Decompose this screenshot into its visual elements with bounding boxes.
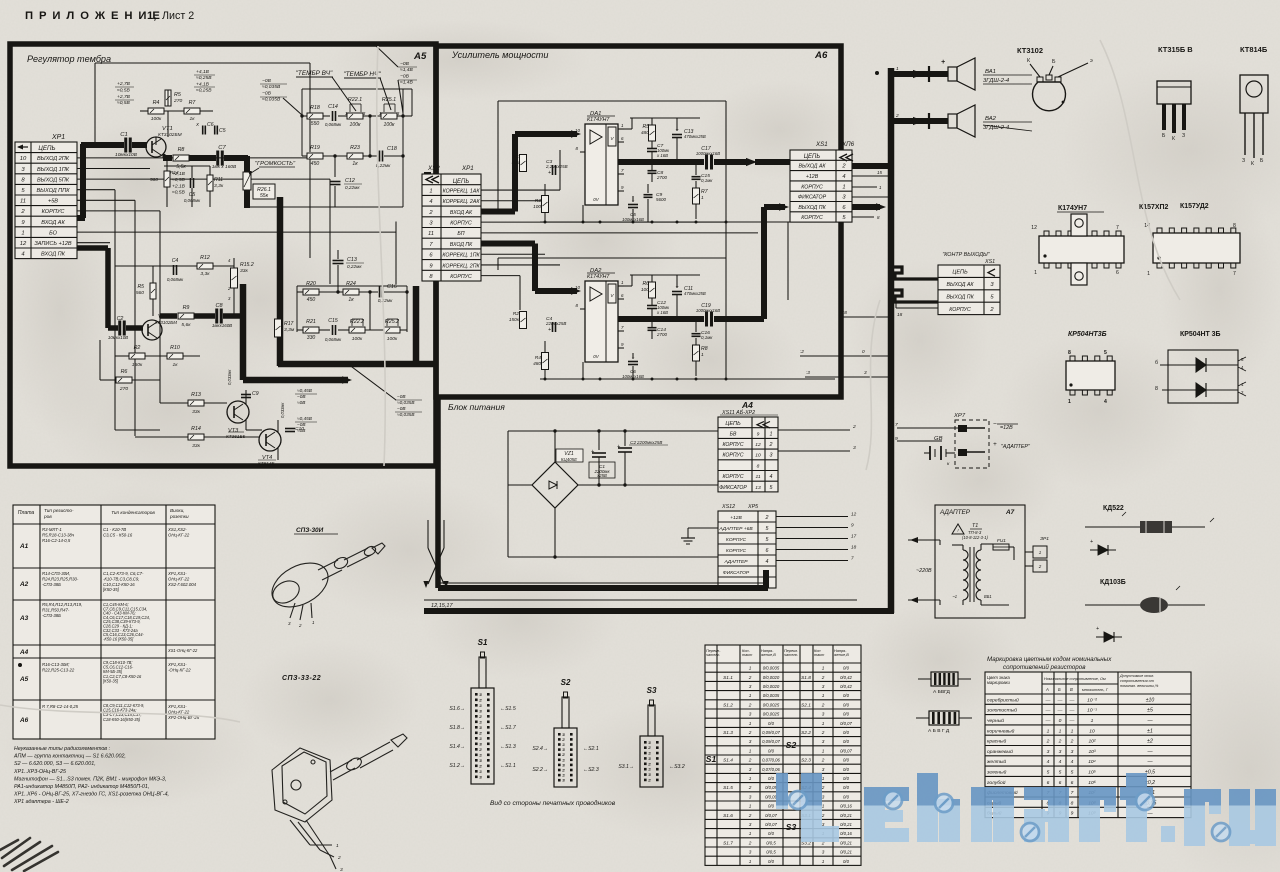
svg-text:≈0,035В: ≈0,035В — [397, 412, 415, 417]
svg-text:3: 3 — [749, 712, 752, 717]
callout diagonal to bus note — [348, 364, 396, 400]
svg-text:ВХОД АК: ВХОД АК — [450, 210, 473, 216]
svg-text:АПМ — группа контактниц — S1: АПМ — группа контактниц — S1 6.620.002, — [13, 754, 126, 760]
svg-text:R8: R8 — [701, 346, 708, 352]
wire C8 onward — [223, 313, 245, 319]
svg-text:4: 4 — [1071, 759, 1074, 765]
svg-text:0/0,0020: 0/0,0020 — [763, 675, 780, 680]
resistor R4 100к — [148, 108, 164, 114]
svg-text:100к: 100к — [352, 336, 363, 342]
component type table — [13, 505, 215, 739]
resistor R6 — [649, 282, 656, 298]
svg-text:БО: БО — [49, 230, 57, 236]
svg-text:розетки: розетки — [169, 514, 189, 519]
svg-text:—: — — [1146, 749, 1153, 755]
svg-text:270: 270 — [119, 386, 128, 392]
svg-text:Маркировка цветным кодом н: Маркировка цветным кодом номинальных — [987, 656, 1112, 663]
svg-text:10мкх10В: 10мкх10В — [115, 152, 138, 158]
svg-text:0/0,09: 0/0,09 — [765, 785, 777, 790]
svg-text:18: 18 — [851, 545, 857, 550]
svg-text:чатель: чатель — [706, 653, 720, 657]
svg-text:КД103Б: КД103Б — [1100, 579, 1126, 586]
svg-text:Б: Б — [1058, 687, 1061, 692]
svg-text:КОРПУС: КОРПУС — [949, 307, 971, 313]
svg-text:7: 7 — [851, 556, 854, 561]
svg-text:3: 3 — [770, 453, 773, 459]
svg-text:—: — — [1069, 709, 1075, 714]
svg-text:[К50-35]: [К50-35] — [102, 587, 120, 592]
polarized capacitor С11 — [672, 291, 682, 293]
capacitor C16 0,22мк — [379, 287, 381, 298]
svg-text::8: :8 — [843, 310, 847, 315]
svg-text:150к: 150к — [132, 362, 143, 368]
thick bottom border of power block — [438, 585, 768, 591]
svg-text:0/0,0035: 0/0,0035 — [763, 693, 780, 698]
svg-text:Плата: Плата — [18, 510, 35, 516]
svg-text:КТ3102БМ: КТ3102БМ — [155, 320, 177, 325]
svg-text:10: 10 — [20, 156, 27, 162]
svg-text:0/0,0020: 0/0,0020 — [763, 684, 780, 689]
svg-text:6: 6 — [766, 548, 769, 554]
svg-text:10: 10 — [575, 285, 580, 290]
svg-text:S1.5: S1.5 — [723, 785, 733, 790]
svg-text:А7: А7 — [1005, 509, 1015, 516]
svg-text:R12: R12 — [200, 255, 210, 261]
capacitor С8 — [648, 170, 657, 172]
svg-text:S2.2: S2.2 — [801, 730, 811, 735]
capacitor С19 in bus — [705, 312, 708, 327]
svg-text:К157УД2: К157УД2 — [1180, 203, 1209, 210]
svg-text:3: 3 — [1059, 749, 1062, 755]
resistor 560 (R14) — [164, 171, 170, 187]
svg-text:0/0: 0/0 — [768, 721, 775, 726]
power block left border — [435, 397, 441, 588]
capacitor С15 — [692, 176, 701, 178]
svg-text:560: 560 — [150, 177, 158, 183]
svg-text:R 7,R8-С2-14-0,25: R 7,R8-С2-14-0,25 — [42, 704, 79, 709]
svg-text:12: 12 — [20, 241, 27, 247]
svg-text:~1: ~1 — [952, 594, 957, 599]
svg-text:—: — — [1069, 698, 1075, 703]
svg-text:3: 3 — [749, 822, 752, 827]
svg-text:330: 330 — [307, 335, 316, 341]
svg-text:0/0: 0/0 — [843, 712, 850, 717]
svg-text:+: + — [993, 441, 997, 448]
svg-text:ВЫХОД 1ПК: ВЫХОД 1ПК — [37, 167, 70, 173]
volume pot R26.1 — [243, 172, 251, 190]
svg-text:-К10-7В,С3,С8,С9,: -К10-7В,С3,С8,С9, — [103, 576, 139, 581]
svg-text:←S2.3: ←S2.3 — [583, 767, 599, 773]
svg-text:маркировки: маркировки — [987, 680, 1011, 685]
svg-text:22мкх25В: 22мкх25В — [545, 321, 566, 326]
svg-text:ВЫХОД АК: ВЫХОД АК — [946, 282, 974, 288]
svg-text:GB: GB — [934, 436, 943, 442]
svg-text:R22,R25-С13-22: R22,R25-С13-22 — [42, 667, 75, 672]
svg-text:КОРПУС: КОРПУС — [42, 209, 66, 215]
svg-text:ЦЕПЬ: ЦЕПЬ — [725, 421, 741, 427]
svg-text:2: 2 — [1070, 739, 1074, 745]
svg-text:номинал. величины,%: номинал. величины,% — [1120, 684, 1159, 688]
svg-text:S2.4→: S2.4→ — [532, 746, 548, 752]
svg-text:С5: С5 — [219, 128, 226, 134]
svg-text:≈0,5В: ≈0,5В — [172, 190, 186, 196]
svg-text:С7: С7 — [218, 145, 226, 151]
power top rail — [508, 430, 718, 432]
svg-text:10⁶: 10⁶ — [1088, 780, 1096, 786]
IC pinout К157 DIP drawing — [1153, 233, 1240, 263]
svg-text:R16-С13-30И;: R16-С13-30И; — [42, 662, 70, 667]
callout diagonal — [283, 98, 302, 115]
svg-text:К174УН7: К174УН7 — [1058, 205, 1087, 212]
potentiometer СПЗ-30И drawing — [265, 543, 385, 620]
svg-text:R5,R4,R12,R13,R19,: R5,R4,R12,R13,R19, — [42, 602, 82, 607]
svg-text:5: 5 — [1047, 770, 1050, 776]
switch S1 body — [471, 688, 494, 784]
svg-text:0/0,21: 0/0,21 — [840, 850, 852, 855]
svg-text:0/0: 0/0 — [843, 730, 850, 735]
capacitor C13 0,22мк (above) — [333, 260, 344, 262]
svg-text:1: 1 — [1071, 728, 1074, 734]
capacitor С14 — [648, 327, 657, 329]
svg-text:6: 6 — [1047, 780, 1050, 786]
watermark partial glyph at left edge — [776, 773, 788, 809]
resistor R7 — [693, 188, 700, 204]
svg-text:2: 2 — [479, 698, 482, 702]
svg-text:КОРПУС: КОРПУС — [801, 215, 823, 221]
svg-text:1: 1 — [563, 774, 565, 778]
svg-text:1: 1 — [822, 804, 825, 809]
IC pinout КР504НТ3Б drawing (left) — [1066, 361, 1115, 390]
svg-text:Допустимые откл.: Допустимые откл. — [1119, 674, 1154, 678]
wires below XS1 to bus — [800, 355, 888, 357]
svg-text:S3: S3 — [786, 822, 797, 832]
svg-text:4: 4 — [1104, 399, 1107, 405]
svg-text:0/0: 0/0 — [768, 804, 775, 809]
svg-text:КОРРЕКЦ. 1АК: КОРРЕКЦ. 1АК — [443, 188, 481, 194]
thick output bus with arrow (lower) — [243, 377, 348, 384]
ink dot near A5 row — [18, 663, 22, 667]
svg-text:Усилитель мощности: Усилитель мощности — [451, 50, 548, 60]
svg-text:≈0,25В: ≈0,25В — [196, 75, 212, 81]
svg-text:1мкх160В: 1мкх160В — [212, 323, 232, 328]
capacitor C12 0,22мк — [334, 156, 336, 177]
svg-text:5: 5 — [1071, 770, 1074, 776]
thin rail under tone network — [247, 206, 403, 208]
svg-text:ХР1,ХS1-: ХР1,ХS1- — [167, 662, 187, 667]
svg-text:1: 1 — [822, 666, 825, 671]
left capacitor С4 — [552, 322, 554, 332]
bottom rail wire — [540, 221, 835, 223]
svg-text:R6: R6 — [121, 369, 128, 375]
svg-text:ВЫХОД ПК: ВЫХОД ПК — [946, 294, 974, 300]
resistor R19 450 — [307, 153, 323, 159]
svg-text:−: − — [993, 421, 997, 428]
svg-text:С9: С9 — [252, 391, 259, 397]
svg-text:8: 8 — [757, 463, 760, 469]
feedback frame DA1 — [498, 100, 726, 102]
svg-text:480: 480 — [641, 130, 649, 136]
svg-text:12: 12 — [851, 512, 857, 517]
speaker BA2 wire — [891, 118, 948, 124]
svg-text:3: 3 — [649, 757, 651, 761]
resistor R5 560 (lower) — [150, 283, 156, 299]
svg-text:0,068мк: 0,068мк — [325, 122, 342, 127]
svg-text:R14: R14 — [191, 426, 201, 432]
thick output bus DA2 out — [618, 316, 704, 322]
svg-text:≈0,45В: ≈0,45В — [297, 388, 312, 393]
svg-text:R19: R19 — [310, 145, 320, 151]
svg-text:КОРРЕКЦ. 1ПК: КОРРЕКЦ. 1ПК — [442, 253, 480, 259]
svg-text:А4: А4 — [19, 649, 29, 656]
svg-text:КТ315Б В: КТ315Б В — [1158, 45, 1193, 54]
svg-text:К174УН7: К174УН7 — [587, 274, 610, 280]
switch S2 body — [554, 728, 577, 787]
svg-text:10⁻¹: 10⁻¹ — [1087, 708, 1097, 714]
trimmer R22.1 100к — [347, 113, 363, 119]
svg-text:≈0,45В: ≈0,45В — [297, 416, 312, 421]
svg-text:3: 3 — [480, 709, 482, 713]
svg-text:1: 1 — [701, 352, 704, 358]
wires right of XS12 table — [776, 516, 848, 518]
svg-text:0,07/0,06: 0,07/0,06 — [762, 767, 780, 772]
diode КД522 drawing — [1085, 526, 1140, 528]
thick wire XS1 ВЫХОД АК to bus — [852, 163, 893, 169]
svg-text:S2 — 6.620.000, S3 — 6.620.00: S2 — 6.620.000, S3 — 6.620.001, — [14, 761, 96, 767]
svg-text:А2: А2 — [19, 581, 29, 588]
svg-text:[К50-35]: [К50-35] — [102, 678, 119, 683]
resistor R8 — [173, 155, 189, 161]
svg-text:2: 2 — [821, 730, 825, 735]
svg-text:R5: R5 — [174, 92, 181, 98]
svg-text:2: 2 — [1058, 739, 1062, 745]
svg-text:1: 1 — [749, 748, 752, 753]
svg-text:2700: 2700 — [656, 332, 667, 337]
svg-text:−0В: −0В — [397, 394, 406, 399]
svg-text:0/0,21: 0/0,21 — [840, 840, 852, 845]
trimmer R25.1 100к — [381, 113, 397, 119]
svg-text:8: 8 — [1233, 223, 1236, 229]
svg-text:560: 560 — [136, 290, 144, 296]
wire R9 to C8 — [194, 313, 215, 319]
callout to volume pot — [251, 168, 259, 173]
svg-text:3: 3 — [749, 850, 752, 855]
svg-text:С4: С4 — [172, 258, 179, 264]
svg-text:≈1,4В: ≈1,4В — [400, 80, 414, 86]
svg-text:9: 9 — [757, 431, 760, 437]
svg-text:3: 3 — [563, 779, 565, 783]
svg-text:3: 3 — [649, 773, 651, 777]
svg-text:"АДАПТЕР": "АДАПТЕР" — [1001, 444, 1031, 450]
svg-text:2200мкх25В: 2200мкх25В — [636, 440, 662, 445]
svg-text:3: 3 — [563, 733, 565, 737]
svg-text:S3: S3 — [647, 686, 657, 695]
svg-text:1: 1 — [649, 752, 651, 756]
svg-text:−0В: −0В — [297, 394, 306, 399]
capacitor C18 0,22мк — [379, 151, 381, 162]
contr output table XS1 — [938, 265, 1000, 315]
svg-text:8: 8 — [1155, 386, 1158, 392]
feedback loop wire top — [95, 62, 310, 64]
svg-text:=12В: =12В — [1000, 425, 1013, 431]
pin stubs DA1 — [618, 128, 624, 130]
svg-text:S1.8: S1.8 — [801, 675, 811, 680]
svg-text:2: 2 — [821, 702, 825, 707]
op-amp DA2 К174УН7 — [585, 281, 618, 362]
svg-text:ХS2: ХS2 — [427, 165, 440, 172]
svg-text:ВЫХОД АК: ВЫХОД АК — [798, 164, 826, 170]
svg-text:А6: А6 — [814, 50, 828, 61]
svg-text:4: 4 — [766, 559, 769, 565]
svg-text:−0В: −0В — [400, 61, 410, 67]
svg-text:3: 3 — [563, 748, 565, 752]
svg-text:≈0,035В: ≈0,035В — [262, 84, 281, 90]
svg-text:1: 1 — [749, 859, 752, 864]
svg-text:1: 1 — [480, 704, 482, 708]
arrowhead on bus — [277, 214, 283, 222]
svg-text:2: 2 — [648, 762, 651, 766]
svg-text:3: 3 — [822, 794, 825, 799]
svg-text:1: 1 — [1047, 728, 1050, 734]
svg-text:←S1.5: ←S1.5 — [500, 706, 516, 712]
svg-text:С2: С2 — [117, 316, 124, 322]
svg-text:множитель, Г: множитель, Г — [1082, 687, 1109, 692]
capacitor C1 2200мк — [598, 431, 600, 450]
svg-text:1: 1 — [563, 758, 565, 762]
inline arrow BA1 — [913, 70, 924, 78]
svg-text:150к: 150к — [509, 317, 520, 322]
capacitor С7 — [647, 148, 657, 150]
svg-text:Неуказанные типы радиоэлемен: Неуказанные типы радиоэлементов : — [14, 746, 111, 752]
speaker BA2 — [948, 114, 957, 128]
svg-text:≈1,4В: ≈1,4В — [400, 67, 414, 73]
transistor pinout КТ315БВ drawing — [1157, 81, 1191, 104]
svg-text:1: 1 — [480, 737, 482, 741]
svg-text:АДАПТЕР: АДАПТЕР — [939, 509, 971, 516]
transistor VT1 — [146, 137, 166, 157]
thick bus VT2 out — [160, 313, 177, 319]
resistor R15.2 33к — [231, 268, 238, 288]
svg-text:1к: 1к — [189, 116, 195, 122]
svg-text:2: 2 — [337, 855, 341, 861]
power bottom rail — [508, 556, 766, 558]
capacitor C9 5600 (DA1) — [644, 194, 653, 196]
svg-text:1: 1 — [379, 111, 381, 116]
svg-text:S1.6→: S1.6→ — [449, 706, 465, 712]
svg-text:1мк х 160В: 1мк х 160В — [212, 164, 237, 170]
resistor R7 1к — [184, 108, 200, 114]
svg-text:5600: 5600 — [656, 197, 666, 202]
svg-text:ФИКСАТОР: ФИКСАТОР — [723, 570, 750, 576]
svg-text:2: 2 — [479, 715, 482, 719]
capacitor C10 — [285, 428, 295, 430]
svg-text:550: 550 — [311, 121, 320, 127]
capacitor C6 — [202, 126, 204, 135]
switch S3 stem — [648, 705, 655, 736]
svg-text:э: э — [1090, 58, 1093, 64]
svg-text:В: В — [1070, 687, 1073, 692]
svg-text:С15: С15 — [328, 318, 338, 324]
svg-text:А5: А5 — [413, 51, 427, 62]
svg-text:±2: ±2 — [1147, 739, 1153, 745]
svg-text:R5: R5 — [137, 284, 144, 290]
svg-text:Номинальное сопротивление, Ом: Номинальное сопротивление, Ом — [1044, 677, 1106, 681]
svg-text:"ТЕМБР НЧ": "ТЕМБР НЧ" — [343, 71, 381, 78]
svg-text:3,3к: 3,3к — [214, 183, 224, 189]
svg-text:0,033мк: 0,033мк — [227, 369, 232, 385]
svg-text:0/0,5: 0/0,5 — [766, 850, 776, 855]
connector table XS1 (A6 right) — [790, 150, 852, 222]
svg-text:2700: 2700 — [656, 175, 667, 180]
svg-text:2,2мкх25В: 2,2мкх25В — [545, 164, 568, 169]
svg-text:11: 11 — [428, 231, 434, 237]
svg-text:0/0: 0/0 — [843, 702, 850, 707]
warning triangle — [952, 524, 964, 534]
svg-text:1: 1 — [822, 748, 825, 753]
svg-text:≈0,035В: ≈0,035В — [397, 400, 415, 405]
svg-text:0,22мк: 0,22мк — [378, 298, 393, 303]
thick bus XP1 ВХОД АК to DA1 — [481, 208, 515, 214]
svg-text:ВЫХОД 2ПК: ВЫХОД 2ПК — [37, 156, 70, 162]
svg-text:1: 1 — [1068, 399, 1071, 405]
svg-text:черный: черный — [987, 717, 1004, 724]
svg-text:ВХОД ПК: ВХОД ПК — [41, 252, 66, 258]
svg-text:1: 1 — [1059, 728, 1062, 734]
svg-text:100: 100 — [533, 204, 541, 209]
svg-text:450: 450 — [311, 161, 320, 167]
svg-text:КТ3102БМ: КТ3102БМ — [158, 132, 183, 138]
svg-text:2: 2 — [769, 442, 773, 448]
svg-text:А Б В Г Д: А Б В Г Д — [928, 728, 950, 734]
op-amp DA1 К174УН7 — [585, 124, 618, 205]
svg-text:VT1: VT1 — [162, 126, 173, 132]
thick bus VT1 emitter to volume — [163, 154, 166, 158]
svg-text:0/0: 0/0 — [843, 758, 850, 763]
thick bus from XP1 ВХОД ПК to C2 — [77, 245, 108, 251]
svg-text:0,22мк: 0,22мк — [345, 185, 360, 190]
svg-text:жение,В: жение,В — [833, 653, 849, 657]
svg-text:R31,R50,R47-: R31,R50,R47- — [42, 607, 70, 612]
svg-text:0: 0 — [862, 349, 865, 354]
diode symbol small КД103Б — [1096, 636, 1122, 638]
svg-text:R21: R21 — [306, 319, 316, 325]
svg-text:ВХОД ПК: ВХОД ПК — [450, 242, 473, 248]
svg-text:АДАПТЕР: АДАПТЕР — [723, 559, 748, 565]
svg-text:—: — — [1045, 719, 1051, 724]
wires lower stage — [115, 265, 197, 267]
thick wire XS1 ВЫХОД ПК to bus — [852, 204, 880, 210]
svg-text:С8: С8 — [215, 303, 223, 309]
svg-text:ЦЕПЬ: ЦЕПЬ — [952, 270, 968, 276]
svg-text:3: 3 — [749, 794, 752, 799]
svg-text:—: — — [1057, 698, 1063, 703]
potentiometer СПЗ-33-22 drawing — [272, 734, 407, 869]
svg-text:сопротивления от: сопротивления от — [1120, 679, 1154, 683]
svg-text:ЗР1: ЗР1 — [1040, 536, 1049, 542]
svg-text:1: 1 — [749, 804, 752, 809]
callout diagonals from tone labels — [332, 77, 356, 111]
svg-text:б: б — [1155, 360, 1158, 366]
thick output bus DA1 out — [618, 159, 704, 165]
svg-text:1000мкх16В: 1000мкх16В — [696, 151, 720, 156]
svg-text:+12В: +12В — [730, 515, 742, 521]
svg-text:0/0,21: 0/0,21 — [840, 813, 852, 818]
svg-text:+: + — [1090, 539, 1093, 545]
left resistor R1 — [520, 155, 527, 172]
svg-text:0/0,16: 0/0,16 — [840, 804, 852, 809]
svg-text:11: 11 — [755, 474, 760, 480]
svg-text:1: 1 — [749, 666, 752, 671]
svg-text:2: 2 — [1046, 739, 1050, 745]
